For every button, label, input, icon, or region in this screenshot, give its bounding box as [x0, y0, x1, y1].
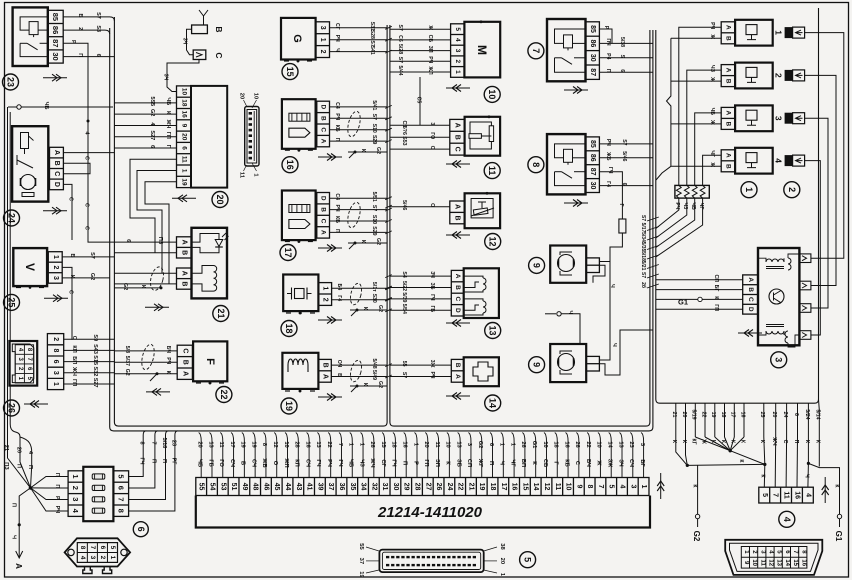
svg-text:3: 3 [629, 485, 636, 489]
component 24 internal resistor [21, 133, 29, 149]
svg-text:20: 20 [15, 447, 21, 453]
svg-text:5/22: 5/22 [401, 281, 407, 291]
svg-text:8: 8 [531, 162, 541, 167]
svg-text:14: 14 [532, 483, 539, 491]
svg-text:13: 13 [315, 441, 321, 447]
svg-text:2: 2 [99, 556, 106, 560]
svg-text:4: 4 [804, 493, 811, 497]
junction line to item 4 [687, 464, 765, 465]
svg-text:5: 5 [117, 474, 126, 478]
svg-text:ЧГ: ЧГ [709, 150, 715, 157]
svg-text:3: 3 [454, 49, 461, 53]
component 24 internal switch [16, 155, 18, 165]
svg-text:9: 9 [180, 124, 187, 128]
svg-text:20: 20 [196, 441, 202, 447]
svg-text:18: 18 [180, 99, 187, 107]
svg-text:П: П [54, 473, 60, 477]
svg-text:1: 1 [454, 70, 461, 74]
svg-text:A: A [321, 374, 328, 379]
svg-text:С: С [782, 440, 788, 444]
svg-text:10: 10 [751, 559, 757, 566]
svg-text:30: 30 [589, 182, 596, 190]
svg-text:C: C [320, 219, 327, 224]
svg-text:45: 45 [273, 483, 280, 491]
component 26 connector body [9, 341, 37, 386]
svg-text:10: 10 [565, 483, 572, 491]
wire left border vertical 21-ПЗ [8, 107, 31, 488]
svg-text:ГЧ: ГЧ [139, 458, 145, 465]
module 3 internal coil upper [766, 259, 784, 262]
svg-text:ЧЗ: ЧЗ [358, 459, 364, 467]
svg-text:6: 6 [136, 527, 146, 532]
svg-text:7: 7 [89, 546, 96, 550]
svg-text:6: 6 [99, 546, 106, 550]
component 21 pin pair A B upper [177, 237, 192, 258]
svg-text:ПЧ: ПЧ [605, 38, 611, 46]
component 24 internal motor [21, 175, 36, 190]
svg-text:A: A [181, 371, 188, 376]
injector 4 pin pair A B [721, 150, 735, 172]
svg-text:D: D [747, 307, 754, 312]
svg-text:БГ: БГ [639, 459, 645, 467]
wires into 21 lower pins with twisted pair [114, 272, 176, 274]
svg-text:13: 13 [617, 441, 623, 447]
svg-text:5/38: 5/38 [619, 37, 625, 47]
svg-text:РЧ: РЧ [674, 202, 680, 209]
ground stub 16 К G2 [348, 151, 387, 153]
connector X1 mounting tabs [83, 567, 92, 574]
wires 16 to trunk [330, 106, 388, 108]
svg-text:C: C [214, 52, 224, 58]
svg-text:1: 1 [52, 255, 59, 259]
svg-text:A: A [181, 240, 188, 245]
diagnostic connector drawing [245, 107, 259, 167]
coupler B [192, 25, 208, 34]
svg-text:23: 23 [6, 77, 16, 87]
svg-text:12: 12 [488, 236, 498, 246]
svg-text:1: 1 [319, 38, 326, 42]
svg-text:S27: S27 [92, 378, 98, 388]
svg-text:Г4: Г4 [605, 181, 611, 187]
wires 13 to trunk [390, 275, 451, 277]
svg-text:5/46: 5/46 [621, 151, 627, 161]
svg-text:5: 5 [523, 557, 533, 562]
module 3 internal transistor [769, 289, 784, 304]
relay 8 designator [528, 157, 544, 173]
wires 14 to trunk [390, 364, 451, 366]
OBD pin grid [741, 547, 807, 569]
svg-text:S7: S7 [89, 252, 95, 259]
svg-text:РЧ: РЧ [427, 56, 433, 63]
component 18 box [283, 275, 318, 312]
component 17 designator [280, 245, 296, 261]
component 12 internal symbol [471, 199, 493, 218]
svg-text:3: 3 [52, 371, 59, 375]
svg-text:20: 20 [423, 441, 429, 447]
svg-text:ГП: ГП [423, 459, 429, 466]
harness arrow near 8 [564, 202, 588, 204]
svg-text:38: 38 [499, 543, 505, 550]
harness arrow near 3 [738, 332, 762, 334]
svg-text:2: 2 [319, 50, 326, 54]
svg-text:ОЧ: ОЧ [336, 360, 342, 368]
svg-text:A: A [454, 123, 461, 128]
svg-text:5/8: 5/8 [124, 346, 130, 353]
component 14 internal symbol [473, 362, 493, 381]
svg-text:B: B [725, 79, 732, 84]
svg-text:ГО: ГО [429, 132, 435, 139]
component 26 pin strip [47, 334, 63, 390]
svg-text:16: 16 [285, 160, 295, 170]
svg-text:13: 13 [488, 325, 498, 335]
component 24 box [12, 126, 48, 201]
module 3 designator [771, 352, 787, 368]
svg-text:53: 53 [219, 483, 226, 491]
wire relay23 pin86 labels 2 S3 [63, 30, 109, 34]
fuse block 6 left pin strip 1-4 [68, 471, 83, 517]
svg-text:3: 3 [319, 26, 326, 30]
harness arrow near 10 [446, 87, 470, 89]
svg-text:C: C [181, 348, 188, 353]
relay 23 pin strip 85 86 87 30 [48, 10, 63, 63]
wires component 24 pins to trunk [63, 152, 114, 154]
svg-text:A: A [747, 277, 754, 282]
svg-text:21: 21 [671, 412, 677, 418]
injector 3 pin pair A B [721, 107, 735, 129]
svg-text:1: 1 [509, 443, 515, 446]
injector A wires to resistor pack [679, 27, 721, 185]
svg-text:БП: БП [520, 459, 526, 467]
svg-text:S7: S7 [371, 114, 377, 120]
svg-text:5/54: 5/54 [401, 304, 407, 314]
svg-text:11: 11 [487, 166, 497, 176]
svg-text:9: 9 [575, 485, 582, 489]
svg-text:ЗБ: ЗБ [455, 459, 461, 467]
item 1 designator [741, 182, 757, 198]
svg-text:26: 26 [435, 483, 442, 491]
component 14 box [464, 357, 499, 386]
wires 26 pins to trunk with labels [64, 338, 115, 340]
svg-text:86: 86 [589, 40, 596, 48]
component 26 pin grid [15, 345, 33, 383]
item 4 designator [779, 511, 795, 527]
svg-text:85: 85 [589, 140, 596, 148]
wire vertical 4-П branch [20, 437, 32, 488]
OBD connector outer [725, 540, 822, 575]
svg-text:О: О [272, 461, 278, 466]
svg-text:B: B [454, 363, 461, 368]
svg-text:С6: С6 [397, 35, 403, 42]
svg-text:3: 3 [774, 357, 784, 362]
svg-text:G: G [291, 34, 303, 43]
svg-text:Р: Р [603, 26, 609, 30]
svg-text:5/35: 5/35 [640, 242, 646, 252]
wires 12 to trunk [390, 206, 450, 208]
svg-text:S32: S32 [92, 367, 98, 377]
svg-text:1: 1 [744, 187, 754, 192]
svg-text:11: 11 [783, 491, 790, 499]
injector 2 pin pair A B [721, 65, 735, 87]
harness arrow near 24 [43, 210, 67, 212]
wires relay 7 to right trunk [599, 29, 612, 43]
svg-text:G2: G2 [377, 381, 383, 388]
svg-text:55: 55 [401, 361, 407, 367]
injector 1 pin pair A B [721, 22, 735, 44]
svg-text:5/19: 5/19 [691, 409, 697, 419]
svg-text:S10: S10 [371, 215, 377, 224]
svg-text:22: 22 [700, 412, 706, 418]
svg-text:РЧ: РЧ [334, 113, 340, 120]
svg-text:S: S [619, 55, 625, 59]
svg-text:25: 25 [759, 412, 765, 418]
svg-text:19: 19 [284, 401, 294, 411]
svg-text:1: 1 [180, 169, 187, 173]
right region fan wires from harness bottom [675, 403, 677, 437]
fuses F1-F4 [92, 474, 105, 479]
svg-text:КБ: КБ [334, 125, 340, 132]
svg-text:55: 55 [358, 543, 364, 550]
svg-text:П: П [54, 484, 60, 488]
svg-text:СП: СП [713, 274, 719, 282]
harness arrow near 22 [146, 391, 170, 393]
svg-text:Ч: Ч [334, 48, 340, 52]
wire harness trunk inner U right section [390, 25, 650, 426]
component 16 pin strip D B C A [317, 101, 330, 147]
svg-text:B: B [454, 216, 461, 221]
svg-text:ЖЧ: ЖЧ [771, 436, 777, 446]
component 9 upper pin pair [586, 258, 599, 273]
svg-text:10: 10 [253, 93, 259, 99]
svg-text:18: 18 [553, 441, 559, 447]
svg-text:5/17: 5/17 [640, 223, 646, 233]
svg-text:27: 27 [424, 483, 431, 491]
svg-text:5/48: 5/48 [371, 359, 377, 369]
svg-text:F: F [204, 358, 216, 365]
svg-text:C: C [454, 147, 461, 152]
wire 26 strip link from 25 [71, 310, 73, 340]
svg-text:С: С [83, 226, 89, 230]
component 14 pin strip B A [451, 359, 463, 382]
svg-text:24: 24 [7, 213, 17, 223]
svg-text:35: 35 [349, 483, 356, 491]
svg-text:Ж: Ж [427, 24, 433, 30]
svg-text:5/18: 5/18 [640, 251, 646, 261]
svg-text:23: 23 [628, 441, 634, 447]
svg-text:9: 9 [532, 263, 542, 268]
svg-text:A: A [725, 68, 732, 73]
svg-text:19: 19 [250, 441, 256, 447]
component 13 designator [485, 323, 501, 339]
svg-text:B: B [454, 135, 461, 140]
svg-text:ЧБ: ЧБ [348, 459, 354, 467]
svg-text:4: 4 [782, 517, 792, 522]
svg-text:21: 21 [216, 308, 226, 318]
svg-text:A: A [320, 139, 327, 144]
svg-text:3: 3 [639, 443, 645, 446]
svg-text:18: 18 [489, 483, 496, 491]
svg-text:4: 4 [774, 158, 784, 163]
fuse block 6 body [83, 467, 113, 521]
svg-text:Г: Г [618, 204, 624, 207]
svg-text:34: 34 [360, 483, 367, 491]
component 22 box F [193, 341, 227, 381]
svg-text:П: П [334, 138, 340, 142]
wires from 15 to trunk [330, 27, 388, 29]
svg-text:Р4: Р4 [605, 53, 611, 59]
svg-text:6: 6 [117, 486, 126, 490]
svg-text:П: П [77, 53, 83, 57]
wire relay23 pin30 labels П 6 [63, 56, 114, 58]
component 11 internal resistors [469, 134, 481, 139]
svg-text:ГЧ: ГЧ [337, 459, 343, 466]
wire 25 pin3 labels К G2 [62, 277, 109, 279]
item 2 designator [784, 182, 800, 198]
svg-text:5/28: 5/28 [397, 44, 403, 54]
svg-text:24: 24 [446, 483, 453, 491]
svg-text:3: 3 [89, 556, 96, 560]
svg-text:1: 1 [640, 485, 647, 489]
svg-text:S7: S7 [401, 372, 407, 378]
component 18 designator [281, 321, 297, 337]
harness arrow near 16 [318, 156, 342, 158]
svg-text:2: 2 [52, 337, 59, 341]
svg-text:10: 10 [445, 441, 451, 447]
fuse block 6 right pin strip 5-8 [113, 471, 128, 517]
svg-text:11: 11 [759, 560, 765, 567]
wire 25 pin1 labels Б S7 [62, 256, 114, 258]
spark plug connector 1 (item 2) [785, 27, 793, 38]
svg-text:Р: Р [70, 40, 76, 44]
svg-text:ГЧ: ГЧ [315, 459, 321, 466]
wires relay 8 [599, 143, 653, 145]
svg-text:6: 6 [149, 145, 155, 148]
harness arrow near item 4 [824, 477, 826, 503]
component 9 lower (O2 heater) [550, 344, 586, 382]
svg-text:5/34: 5/34 [640, 232, 646, 242]
wires 11 to trunk [390, 124, 450, 126]
svg-text:S7: S7 [95, 12, 101, 19]
svg-text:4: 4 [79, 556, 86, 560]
svg-text:ГЧ: ГЧ [607, 167, 613, 174]
svg-text:ЧБ: ЧБ [690, 202, 696, 210]
component 15 designator [282, 64, 298, 80]
svg-text:B: B [181, 281, 188, 286]
svg-text:СЧ: СЧ [304, 459, 310, 467]
wires 17 to trunk [330, 197, 388, 199]
component 12 pin strip A B [450, 201, 465, 224]
svg-text:О: О [429, 146, 435, 150]
svg-text:G2: G2 [375, 147, 381, 154]
wire relay23 pin85 to trunk with labels Б S7 [63, 17, 114, 21]
svg-text:12: 12 [272, 441, 278, 447]
svg-text:ЧБ: ЧБ [196, 459, 202, 467]
svg-text:G1: G1 [834, 531, 843, 542]
fuse block right wires up to fan rail [129, 431, 147, 477]
svg-text:4: 4 [619, 485, 626, 489]
svg-text:C: C [747, 297, 754, 302]
svg-text:6: 6 [621, 183, 627, 186]
component 17 pin strip D B C A [317, 193, 330, 239]
component 25 pin strip 1 2 3 [48, 252, 62, 284]
svg-text:13: 13 [776, 559, 782, 566]
svg-text:28: 28 [294, 441, 300, 447]
svg-text:Б: Б [77, 14, 83, 18]
svg-text:ЖБ: ЖБ [261, 457, 267, 467]
svg-text:6: 6 [488, 443, 494, 446]
svg-text:6: 6 [180, 146, 187, 150]
svg-text:3: 3 [774, 116, 784, 121]
svg-text:6: 6 [793, 413, 799, 416]
svg-text:21214-1411020: 21214-1411020 [377, 504, 483, 521]
svg-text:Ч: Ч [499, 461, 505, 465]
svg-text:9: 9 [532, 362, 542, 367]
svg-text:10: 10 [180, 88, 187, 96]
svg-text:11: 11 [180, 156, 187, 163]
svg-text:37: 37 [358, 558, 364, 564]
svg-text:СЧ: СЧ [628, 459, 634, 467]
wire 5/14 from box corner [818, 399, 821, 466]
svg-text:8: 8 [261, 443, 267, 446]
svg-text:П: П [402, 461, 408, 465]
wire vertical 20-П along left border [10, 112, 30, 488]
svg-text:A: A [454, 374, 461, 379]
svg-text:РЧ: РЧ [334, 35, 340, 42]
svg-text:РЧ: РЧ [334, 205, 340, 212]
item 5 designator [520, 552, 536, 568]
svg-text:26: 26 [369, 441, 375, 447]
svg-text:21: 21 [467, 483, 474, 491]
svg-text:6: 6 [125, 239, 131, 242]
svg-text:1: 1 [348, 443, 354, 446]
harness arrow near 19 [318, 396, 342, 398]
component 22 pin strip C B A [177, 345, 192, 379]
svg-text:10: 10 [542, 441, 548, 447]
svg-text:19: 19 [180, 178, 187, 186]
svg-text:П: П [150, 459, 156, 463]
svg-text:S29: S29 [371, 135, 377, 144]
spark plug connector 2 (item 2) [785, 70, 793, 81]
svg-text:14: 14 [488, 398, 498, 408]
component 21 pin pair A B lower [177, 268, 192, 289]
svg-text:32: 32 [370, 483, 377, 491]
svg-text:ПЗ: ПЗ [3, 462, 9, 470]
svg-text:G2: G2 [89, 273, 95, 280]
svg-text:ЧЗ: ЧЗ [709, 65, 715, 73]
svg-text:S9: S9 [92, 334, 98, 341]
svg-text:A: A [454, 204, 461, 209]
component 25 box V [13, 248, 47, 286]
svg-text:5/37: 5/37 [124, 356, 130, 366]
svg-text:49: 49 [241, 483, 248, 491]
connector X1 housing (hexagonal) [65, 538, 131, 566]
svg-text:С: С [83, 156, 89, 160]
svg-text:16: 16 [563, 441, 569, 447]
relay 23 designator [3, 74, 19, 90]
svg-text:ЗЖ: ЗЖ [607, 459, 613, 468]
svg-text:87: 87 [589, 168, 596, 176]
svg-text:П: П [27, 465, 33, 469]
trunk crossing marks center [385, 26, 392, 29]
svg-text:1: 1 [358, 443, 364, 446]
svg-text:3Ж: 3Ж [429, 360, 435, 368]
svg-text:36: 36 [338, 483, 345, 491]
svg-text:M: M [475, 45, 489, 55]
svg-text:A: A [320, 230, 327, 235]
svg-text:A: A [725, 111, 732, 116]
coupler C [193, 50, 206, 60]
spark plug connector 4 (item 2) [785, 155, 793, 166]
wires 9 lower [599, 315, 653, 375]
